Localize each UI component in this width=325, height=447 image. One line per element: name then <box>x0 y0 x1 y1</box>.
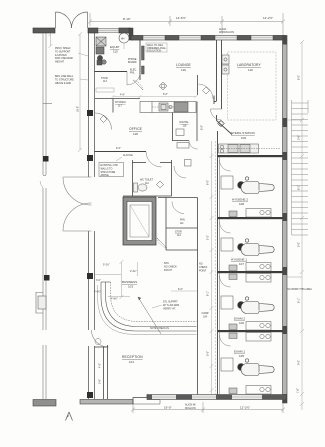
svg-text:4'-6½": 4'-6½" <box>94 290 101 294</box>
dim bottom line <box>131 402 285 413</box>
sink counter exam1 south <box>229 386 271 395</box>
door D16 exam1 <box>220 335 231 346</box>
symbol diamond corr <box>203 87 210 94</box>
wall top right with windows <box>131 36 286 41</box>
svg-text:VERIFY HT.: VERIFY HT. <box>163 307 176 310</box>
svg-text:6'-2": 6'-2" <box>298 185 301 190</box>
wall existing west bottom cap <box>33 400 56 407</box>
svg-text:8'-10": 8'-10" <box>123 17 131 21</box>
wall corridor west segments <box>197 75 199 395</box>
wire top dimension line <box>88 13 285 36</box>
column marker existing C6 <box>44 275 50 281</box>
door D8 digital arc <box>189 141 198 150</box>
svg-text:110: 110 <box>248 68 253 72</box>
cabinet exam1 <box>221 358 233 371</box>
svg-text:BUSINESS: BUSINESS <box>122 280 137 284</box>
svg-text:5'-3": 5'-3" <box>207 235 210 240</box>
svg-text:8'-1": 8'-1" <box>207 291 210 296</box>
svg-text:EXAM 1: EXAM 1 <box>234 350 245 354</box>
svg-text:107: 107 <box>239 262 244 266</box>
svg-text:117: 117 <box>118 105 122 108</box>
svg-text:112: 112 <box>145 182 149 185</box>
svg-text:PNL: PNL <box>130 72 135 75</box>
note brg line wall <box>55 75 88 85</box>
door D17 reception west arc <box>92 330 109 347</box>
svg-text:BOARD: BOARD <box>128 61 137 64</box>
svg-text:1'-6": 1'-6" <box>297 388 300 393</box>
dim ticks business <box>95 260 138 299</box>
svg-text:8'-0": 8'-0" <box>298 75 301 80</box>
wall jog at equip corner <box>129 28 133 40</box>
sterilization counter <box>219 144 281 153</box>
svg-text:8'-0": 8'-0" <box>201 125 204 130</box>
lab counter units <box>222 55 229 74</box>
cabinet hygiene2 <box>221 176 233 189</box>
svg-text:STERIL STATION: STERIL STATION <box>231 131 255 135</box>
wall kitchen north stub <box>95 99 140 113</box>
door D13 hygiene2 <box>220 160 231 171</box>
wall hygiene2-hygiene1 <box>218 217 283 219</box>
column marker existing C5 <box>43 156 49 162</box>
svg-text:3'-8": 3'-8" <box>99 379 102 384</box>
wall top middle (left of jog) <box>88 28 130 33</box>
svg-text:5'-0": 5'-0" <box>207 351 210 356</box>
svg-text:W/PAVILLION: W/PAVILLION <box>219 31 234 34</box>
svg-text:POINT: POINT <box>199 269 207 272</box>
svg-text:IN/OUT: IN/OUT <box>164 269 173 272</box>
column marker C1 <box>87 110 93 116</box>
door D9 wc arc <box>174 166 186 178</box>
note prov shelf top left <box>55 47 88 64</box>
svg-text:105: 105 <box>239 354 244 358</box>
svg-text:8'-1": 8'-1" <box>298 298 301 303</box>
svg-text:OFFICE: OFFICE <box>129 127 143 131</box>
svg-text:ALCOVE: ALCOVE <box>123 154 133 157</box>
dim string corridor <box>210 141 216 394</box>
svg-text:115: 115 <box>113 50 118 54</box>
column marker C2 <box>87 155 93 161</box>
xray equipment digital <box>176 129 191 166</box>
symbol HH circle tag <box>119 33 129 49</box>
svg-text:RECEPTION: RECEPTION <box>122 355 143 359</box>
electrical panel EP <box>142 66 145 74</box>
svg-text:4'-0": 4'-0" <box>99 363 102 368</box>
note box existing walls <box>99 163 124 178</box>
cabinet exam2 <box>221 296 233 309</box>
lab soffit dashed <box>228 52 277 120</box>
svg-text:6'-0": 6'-0" <box>178 288 183 291</box>
svg-text:8'-0": 8'-0" <box>207 180 210 185</box>
room DIGITAL 116 <box>173 102 198 142</box>
wall left main (new) upper <box>89 28 95 399</box>
svg-text:106: 106 <box>239 321 244 325</box>
note text top right no check <box>199 263 208 273</box>
door D7 office south arc <box>146 152 162 168</box>
svg-text:ABOVE & ADD: ABOVE & ADD <box>55 82 71 85</box>
svg-text:16'-0": 16'-0" <box>77 106 80 112</box>
svg-text:NO WORK THIS AREA: NO WORK THIS AREA <box>287 288 312 291</box>
dim string east exterior <box>287 40 304 410</box>
ladder exterior stair east <box>292 100 309 235</box>
dental chair hygiene1 <box>238 239 275 256</box>
wall hygiene1-exam2 <box>218 271 283 273</box>
svg-text:113: 113 <box>103 80 107 83</box>
door D14 hygiene1 <box>220 222 231 233</box>
symbol diamond office west <box>100 116 107 123</box>
svg-text:14'-6½": 14'-6½" <box>176 16 186 20</box>
svg-text:12'-2½": 12'-2½" <box>240 406 250 410</box>
note dtl support <box>152 301 179 311</box>
svg-text:MULLION: MULLION <box>185 407 196 410</box>
svg-text:8'-0": 8'-0" <box>163 93 168 96</box>
dim ticks near top door <box>49 32 53 48</box>
door D4 angled leaf hall <box>133 80 143 90</box>
svg-text:3'-0": 3'-0" <box>96 279 101 282</box>
door D12 lab arc <box>211 109 222 120</box>
svg-text:ABOVE: ABOVE <box>101 174 110 177</box>
room WC TOILET 112 walls <box>123 160 172 196</box>
shelving stor <box>96 88 114 92</box>
svg-text:HH: HH <box>121 37 125 40</box>
wall bottom left band <box>80 395 160 405</box>
svg-text:104: 104 <box>203 316 208 319</box>
dental chair hygiene2 <box>238 177 275 194</box>
door D3 stor door <box>127 71 141 85</box>
wall office south <box>95 151 147 153</box>
elevator shaft <box>123 197 156 245</box>
room EQUIP 115 walls <box>95 40 141 80</box>
svg-text:EXAM 2: EXAM 2 <box>234 317 245 321</box>
note box wall to ceil <box>146 43 167 53</box>
door D6 office big arc <box>95 113 112 130</box>
wall steril south / hygiene2 north <box>218 155 283 157</box>
kitchen counter <box>140 102 196 113</box>
wall exam2-exam1 <box>218 330 283 332</box>
reception desk curved counter <box>98 282 197 335</box>
svg-text:HEIGHT: HEIGHT <box>55 61 65 64</box>
svg-text:5'-2½": 5'-2½" <box>103 263 110 267</box>
door D15 exam2 <box>220 276 231 287</box>
wall top-left block <box>33 28 55 33</box>
niche in existing wall <box>36 293 46 314</box>
svg-text:2'-3¼": 2'-3¼" <box>130 270 137 273</box>
svg-text:HYGIENE 1: HYGIENE 1 <box>231 258 247 262</box>
svg-text:INSULATION: INSULATION <box>147 50 161 53</box>
door D5 lounge to corridor arc <box>199 84 214 99</box>
svg-text:4'-8½": 4'-8½" <box>111 297 118 301</box>
svg-text:109: 109 <box>241 136 246 140</box>
svg-text:6'-6": 6'-6" <box>116 147 121 150</box>
wall sterilization diagonal <box>217 115 233 135</box>
svg-text:5'-0": 5'-0" <box>298 242 301 247</box>
wall corridor east (operatory west) <box>218 131 220 395</box>
toilet fixture <box>134 183 148 192</box>
column marker C3 <box>87 273 93 279</box>
svg-text:NOTE CHECK-IN: NOTE CHECK-IN <box>150 327 169 330</box>
svg-text:4'-8": 4'-8" <box>120 94 125 97</box>
svg-text:119: 119 <box>181 68 186 72</box>
room PAN 111 walls <box>158 198 198 251</box>
sink counter exam2 south + exam1 north <box>229 322 271 342</box>
wall lounge east <box>214 40 217 104</box>
range kitchen <box>174 102 188 112</box>
phone board panel <box>142 46 145 60</box>
symbol diamond note lounge <box>159 82 167 90</box>
room STOR 114 <box>166 249 198 251</box>
leader check-in arrow <box>138 297 161 334</box>
svg-text:HYGIENE 2: HYGIENE 2 <box>232 198 248 202</box>
door D11 stor leaf <box>157 238 167 248</box>
note text 50% no check-in <box>164 262 178 272</box>
equipment compressor cluster <box>96 37 106 65</box>
dim string west of equip <box>78 32 82 152</box>
symbol diamond lab door <box>218 120 225 127</box>
cabinet hygiene1 <box>221 238 233 251</box>
dim labels corridor rotated <box>207 180 210 356</box>
svg-text:LABORATORY: LABORATORY <box>237 63 261 67</box>
vestibule wall inner <box>95 345 108 399</box>
svg-text:103: 103 <box>128 285 133 289</box>
sink counter hygiene2 south <box>229 209 271 218</box>
svg-text:116: 116 <box>183 125 187 128</box>
svg-text:114: 114 <box>177 234 181 237</box>
svg-text:111: 111 <box>180 222 184 225</box>
column marker C4 <box>87 392 93 398</box>
svg-text:12'-2½": 12'-2½" <box>263 16 273 20</box>
symbol diamond wc <box>157 181 164 188</box>
wall existing west segments <box>40 33 52 399</box>
sink counter hygiene1 south + exam2 north <box>229 263 271 283</box>
door D10 pan arc <box>172 202 184 214</box>
svg-text:LOUNGE: LOUNGE <box>176 63 192 67</box>
svg-text:101: 101 <box>129 360 134 364</box>
svg-text:EQUIP: EQUIP <box>110 45 119 49</box>
dim kitchen top <box>112 95 198 98</box>
svg-text:108: 108 <box>239 202 244 206</box>
door D2 double doors in west wall <box>63 177 92 231</box>
dental chair exam2 <box>238 297 275 314</box>
dental chair exam1 <box>238 359 275 376</box>
sink kitchen <box>159 103 168 111</box>
room LABORATORY 110 walls <box>221 40 223 109</box>
wall right exterior <box>283 36 288 404</box>
svg-text:3'-6": 3'-6" <box>298 135 301 140</box>
svg-text:118: 118 <box>133 132 138 136</box>
svg-text:9'-0": 9'-0" <box>298 360 301 365</box>
svg-text:19'-0": 19'-0" <box>164 406 172 410</box>
door D1 double entry doors top <box>56 12 88 28</box>
dim labels east rotated <box>297 75 301 393</box>
wall bottom with windows <box>147 395 286 400</box>
north arrow symbol <box>66 412 73 421</box>
